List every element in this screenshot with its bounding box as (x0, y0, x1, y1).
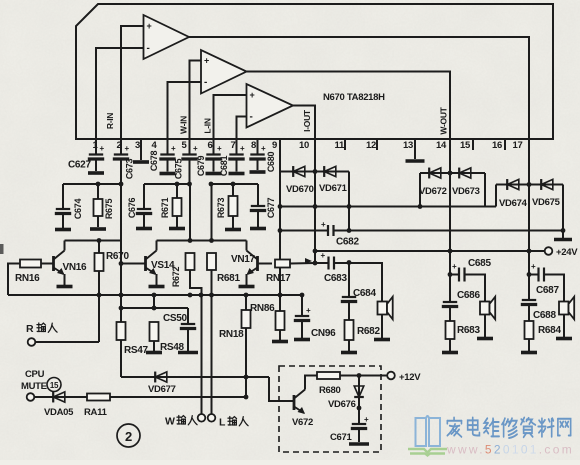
plus polarity mark pin 7 (240, 144, 245, 153)
svg-text:-: - (250, 112, 253, 123)
junction bus1 elbow (347, 204, 352, 209)
wire U1c inverting input to pin 7 (237, 117, 247, 140)
diode VD671 (324, 166, 336, 177)
svg-text:VN17: VN17 (231, 254, 256, 265)
svg-text:C677: C677 (266, 198, 276, 219)
svg-text:W: W (165, 416, 175, 428)
plus polarity mark pin 8 (261, 144, 266, 153)
svg-text:3: 3 (135, 140, 140, 151)
junction node C1 (231, 182, 236, 187)
svg-text:+: + (240, 144, 245, 153)
junction bus4 x154 (152, 293, 157, 298)
plus polarity mark pin 6 (217, 144, 222, 153)
pin 10 tick (314, 139, 316, 150)
terminal +12V (387, 372, 395, 380)
resistor R671 (173, 198, 182, 216)
plus polarity mark pin 4 (171, 144, 176, 153)
wire C685 left (450, 274, 459, 276)
wire node B to C676 (143, 184, 145, 209)
svg-text:C683: C683 (324, 273, 347, 284)
label CN96 (311, 328, 336, 339)
wire CN96 to ground (301, 321, 303, 338)
pin 14 number (436, 140, 447, 151)
svg-text:R682: R682 (357, 326, 380, 337)
wire VS14 collector up (156, 241, 158, 251)
wire op-amp U1b output to pin 14 (247, 72, 451, 140)
wire node line C (211, 183, 259, 185)
pin 15 number (460, 140, 471, 151)
wire VD672 branch down (419, 173, 421, 207)
junction R672 top (188, 238, 193, 243)
svg-text:W-IN: W-IN (179, 116, 189, 134)
wire pin8 cap to ground (257, 159, 259, 170)
label C685 (468, 258, 491, 269)
svg-text:R: R (26, 323, 34, 335)
junction bus1 pin9 (278, 204, 283, 209)
pin 17 number (513, 140, 523, 151)
wire RN17 to C683 node (290, 262, 315, 265)
wire speaker W to ground (484, 315, 486, 338)
resistor R680 (317, 372, 340, 379)
junction bus1 pin10 (313, 204, 318, 209)
wire pin 13 to ground (414, 150, 416, 159)
wire collector line B up (189, 184, 191, 241)
svg-text:R673: R673 (216, 198, 226, 219)
label R673 (216, 198, 226, 219)
wire R683 to ground (449, 339, 451, 351)
svg-text:C627: C627 (68, 160, 91, 171)
wire RS47 column (120, 241, 122, 378)
label CS50 (163, 313, 188, 324)
resistor R683 (446, 321, 455, 339)
svg-text:CN96: CN96 (311, 328, 336, 339)
svg-text:VN16: VN16 (63, 262, 88, 273)
label R input prefix (26, 323, 34, 335)
pin label W-OUT (439, 106, 449, 134)
ground C676 (136, 227, 152, 231)
pin label W-IN (179, 116, 189, 134)
wire collector line A up (120, 184, 122, 241)
junction bus4 x190 (188, 293, 193, 298)
label C680 (266, 152, 276, 173)
junction VD676 bottom (357, 406, 362, 411)
label RN16 (15, 273, 40, 284)
op-amp U1a (144, 15, 190, 59)
circled 2 (117, 424, 140, 447)
svg-text:VDA05: VDA05 (44, 407, 74, 418)
wire pin6 cap to ground (213, 159, 215, 172)
svg-text:VD673: VD673 (452, 186, 480, 197)
ground R671 (169, 227, 185, 231)
svg-text:+: + (452, 262, 457, 271)
resistor R670 (95, 253, 104, 271)
wire R684 to ground (528, 339, 530, 351)
wire C688 to R684 (528, 305, 530, 321)
wire pin 1 to C627 (95, 150, 97, 154)
wire node C to R673 (232, 184, 234, 196)
ground CS50 (178, 351, 198, 355)
svg-text:CPU: CPU (25, 369, 45, 380)
svg-text:C685: C685 (468, 258, 491, 269)
label C681 (219, 156, 229, 177)
pin 15 tick (472, 139, 474, 150)
wire CS50 down (187, 308, 189, 324)
ground C677 (250, 227, 266, 231)
diode VD676 (354, 386, 364, 397)
wire CPU line up to VD677 line (245, 377, 247, 397)
junction node B1 (175, 182, 180, 187)
svg-text:+: + (193, 144, 198, 153)
pin 12 tick (376, 139, 378, 150)
wire R input (36, 341, 100, 343)
wire C686 to R683 (449, 307, 451, 321)
ground R683 (442, 351, 458, 355)
junction bus2 pin9 (278, 228, 283, 233)
resistor RS47 (117, 322, 126, 340)
terminal W input (198, 414, 206, 422)
pin 7 tick (236, 139, 238, 150)
signal arrow (305, 258, 312, 264)
svg-text:14: 14 (436, 140, 447, 151)
svg-text:R670: R670 (106, 251, 129, 262)
svg-text:RN17: RN17 (266, 273, 291, 284)
terminal CPU MUTE (27, 393, 35, 401)
IC part number label N670 TA8218H (323, 92, 385, 103)
ground C627 (88, 171, 104, 175)
svg-text:8: 8 (251, 140, 256, 151)
pin 16 number (492, 140, 502, 151)
wire bus upper (280, 206, 496, 208)
junction VD676 top (357, 373, 362, 378)
pin 9 tick (279, 139, 281, 150)
svg-text:13: 13 (403, 140, 413, 151)
svg-text:+: + (250, 90, 255, 100)
svg-text:C680: C680 (266, 152, 276, 173)
capacitor pin8 (249, 155, 265, 160)
svg-text:R672: R672 (171, 267, 181, 288)
label R671 (160, 198, 170, 219)
junction VD677 right (244, 375, 249, 380)
ground speaker W (477, 337, 493, 341)
wire node B to R671 (176, 184, 178, 198)
wire VD674 branch (496, 184, 563, 186)
wire VS14 emitter to ground (156, 274, 158, 285)
capacitor C673 (113, 155, 129, 160)
svg-text:L-IN: L-IN (203, 118, 213, 133)
capacitor C676 (136, 209, 152, 214)
svg-text:+: + (217, 144, 222, 153)
wire C671 to ground (358, 429, 360, 442)
wire collector line B (157, 240, 214, 242)
label VD676 (328, 399, 356, 410)
svg-text:+: + (321, 251, 326, 260)
label R670 (106, 251, 129, 262)
svg-text:C687: C687 (536, 285, 559, 296)
svg-text:15: 15 (50, 381, 59, 390)
wire speaker R to ground (563, 315, 565, 338)
resistor R684 (525, 321, 534, 339)
svg-text:C688: C688 (533, 310, 556, 321)
svg-text:+: + (321, 220, 326, 229)
svg-text:MUTE: MUTE (21, 381, 47, 392)
label +12V (399, 372, 421, 383)
svg-text:+: + (171, 144, 176, 153)
svg-text:+: + (261, 144, 266, 153)
capacitor C677 (250, 206, 266, 211)
resistor R682 (345, 320, 354, 340)
pin 3 number (135, 140, 140, 151)
junction node B2 (187, 182, 192, 187)
pin label I-OUT (302, 109, 312, 132)
svg-text:R681: R681 (217, 273, 240, 284)
wire C687 right (544, 275, 564, 303)
pin 12 number (366, 140, 376, 151)
label W input prefix (165, 416, 175, 428)
wire pin 4 to C675 (167, 150, 169, 154)
svg-text:R-IN: R-IN (105, 113, 115, 129)
wire R680 to +12V (340, 375, 387, 377)
pin 4 tick (167, 139, 169, 150)
wire R673 to ground (232, 216, 234, 228)
label C676 (127, 198, 137, 219)
wire C687 left (529, 274, 539, 276)
label L input hanzi (228, 417, 248, 426)
pin 13 tick (414, 139, 416, 150)
wire pin 10 column (314, 150, 316, 263)
wire pin 8 cap (257, 150, 259, 154)
pin 4 number (152, 140, 158, 151)
plus C687 (531, 262, 536, 271)
junction pin17-diodes (527, 182, 532, 187)
label VD672 (419, 186, 447, 197)
label VN16 (63, 262, 88, 273)
pin 14 tick (449, 139, 451, 150)
wire VN17 collector up (246, 241, 248, 251)
junction node A1 (96, 182, 101, 187)
wire pin 6 cap (213, 150, 215, 154)
svg-text:C682: C682 (336, 237, 359, 248)
resistor R681 (207, 253, 216, 270)
svg-text:10: 10 (299, 140, 309, 151)
wire C683 right (334, 263, 382, 302)
wire C675 to ground (167, 159, 169, 172)
wire RN16 to left rail (8, 264, 20, 296)
label C688 (533, 310, 556, 321)
wire node A to C674 (62, 184, 64, 209)
svg-text:R680: R680 (319, 385, 341, 396)
ground VN16 (57, 285, 73, 289)
pin 2 tick (120, 139, 122, 150)
label MUTE (21, 381, 47, 392)
label C682 (336, 237, 359, 248)
svg-text:C679: C679 (196, 156, 206, 177)
label VD674 (499, 198, 528, 209)
wire VD672 branch (420, 172, 485, 174)
wire C685 right (465, 275, 486, 303)
wire CS50 to ground (187, 329, 189, 351)
label C683 (324, 273, 347, 284)
ground pin 3 (133, 160, 149, 164)
pin 11 number (335, 140, 345, 151)
wire VN16 emitter to ground (64, 274, 66, 285)
label C671 (330, 432, 353, 443)
wire VD675 down to bus (562, 185, 564, 231)
wire VD673 down to bus (484, 173, 486, 207)
ground pin6 cap (206, 172, 222, 176)
wire node line A (63, 183, 121, 185)
wire R675 to ground (97, 216, 99, 227)
label RN17 (266, 273, 291, 284)
ground C675 (160, 172, 176, 176)
wire R682 to ground (348, 340, 350, 351)
junction bus4 x121 (119, 293, 124, 298)
svg-text:+: + (306, 306, 311, 315)
capacitor C685 (459, 268, 465, 282)
plus polarity mark pin 5 (193, 144, 198, 153)
svg-text:11: 11 (335, 140, 345, 151)
label C627 (68, 160, 91, 171)
svg-text:RN18: RN18 (219, 329, 244, 340)
svg-text:CS50: CS50 (163, 313, 188, 324)
terminal R input (28, 338, 36, 346)
wire op-amp U1c output to pin 10 (293, 106, 315, 140)
junction CPU line RN18 (244, 395, 249, 400)
wire pin 17 column down (528, 150, 530, 300)
wire VN16 collector up (64, 241, 66, 251)
svg-text:R683: R683 (457, 325, 480, 336)
junction bus3 pin17 (527, 249, 532, 254)
svg-text:C678: C678 (149, 151, 159, 172)
svg-text:C674: C674 (73, 199, 83, 220)
wire speaker left to ground (381, 315, 383, 339)
wire VN17 base to RN17 (258, 263, 273, 265)
label L input prefix (219, 417, 226, 429)
label RN18 (219, 329, 244, 340)
wire pin 7 cap (236, 150, 238, 154)
junction node A2 (119, 182, 124, 187)
label C678 (149, 151, 159, 172)
wire C677 to ground (257, 211, 259, 227)
junction C684 top (347, 260, 352, 265)
label R681 (217, 273, 240, 284)
transistor VN16 (54, 251, 65, 276)
wire RN86 to ground (279, 330, 281, 340)
ground pin7 cap (229, 172, 245, 176)
junction VS14 base (119, 261, 124, 266)
wire pin 14 column down (449, 150, 451, 302)
label R683 (457, 325, 480, 336)
diode VD673 (459, 168, 471, 179)
junction R681 top (209, 238, 214, 243)
capacitor C679 (181, 155, 197, 160)
wire CN96 column (301, 295, 303, 316)
svg-text:C686: C686 (457, 290, 480, 301)
resistor R672 (186, 253, 195, 270)
wire U1b inverting input to pin 4 (168, 82, 202, 139)
svg-text:9: 9 (272, 140, 277, 151)
svg-text:15: 15 (460, 140, 471, 151)
diode VD670 (293, 166, 305, 177)
plus C671 (364, 415, 369, 424)
svg-text:RN86: RN86 (250, 303, 275, 314)
wire op-amp U1a output to pin 17 (189, 37, 529, 139)
svg-text:7: 7 (231, 140, 236, 151)
pin 1 number (93, 140, 99, 151)
circled 15 (47, 378, 61, 392)
pin label L-IN (203, 118, 213, 133)
pin 5 number (182, 140, 188, 151)
terminal L input (208, 414, 216, 422)
label +24V (556, 247, 578, 258)
pin 17 tick (528, 139, 530, 150)
wire V672 collector to R680 (305, 376, 317, 390)
junction bus3 pin10 (313, 249, 318, 254)
junction bus1 VD672 (418, 204, 423, 209)
capacitor CS50 (180, 324, 196, 329)
wire node line B (144, 183, 190, 185)
label C674 (73, 199, 83, 220)
label C675 (174, 159, 184, 180)
svg-text:C684: C684 (353, 288, 376, 299)
ground C671 (349, 442, 369, 446)
wire pin 3 to ground (140, 150, 142, 160)
ground R684 (521, 351, 537, 355)
svg-text:+: + (364, 415, 369, 424)
wire C676 to ground (143, 214, 145, 227)
svg-text:VD670: VD670 (286, 184, 314, 195)
label VDA05 (44, 407, 74, 418)
pin label R-IN (105, 113, 115, 129)
resistor RA11 (87, 394, 110, 401)
diode VD674 (507, 179, 519, 190)
capacitor C686 (442, 302, 458, 307)
plus polarity mark pin 1 (100, 144, 105, 153)
plus C682 (321, 220, 326, 229)
diode VD675 (541, 179, 553, 190)
capacitor pin6 (205, 155, 221, 160)
capacitor C675 (159, 155, 175, 160)
label C686 (457, 290, 480, 301)
label CPU (25, 369, 45, 380)
junction C683 node (313, 261, 318, 266)
label R682 (357, 326, 380, 337)
ground RS48 (146, 351, 162, 355)
pin 6 number (208, 140, 213, 151)
wire bus C682 right (334, 230, 564, 232)
svg-text:N670 TA8218H: N670 TA8218H (323, 92, 385, 103)
wire C673 column down (120, 159, 122, 184)
capacitor C674 (55, 209, 71, 214)
svg-text:+: + (204, 56, 209, 66)
svg-text:R671: R671 (160, 198, 170, 219)
svg-text:2: 2 (125, 429, 132, 444)
junction bus2 elbow (347, 228, 352, 233)
svg-text:C676: C676 (127, 198, 137, 219)
wire U1a non-inverting input to pin 2 (121, 26, 144, 139)
pin 6 tick (213, 139, 215, 150)
watermark text jia dian wei xiu zi liao wang (447, 418, 570, 439)
svg-text:-: - (204, 77, 207, 88)
svg-text:+: + (125, 144, 130, 153)
label V672 (292, 417, 313, 428)
label R input hanzi (37, 323, 57, 332)
junction node C0 (209, 182, 214, 187)
wire RN16 to VN16 base (41, 263, 54, 265)
resistor RN18 (242, 310, 251, 328)
scan edge artifact (0, 244, 4, 254)
capacitor C671 (351, 424, 367, 429)
junction bus4 x201 (199, 293, 204, 298)
